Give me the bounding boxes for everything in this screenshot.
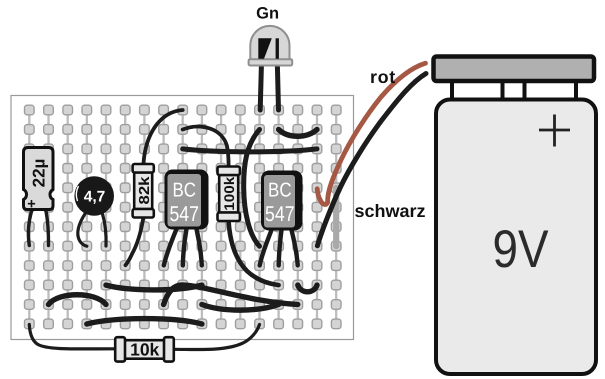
svg-text:BC: BC: [172, 180, 196, 202]
svg-text:Gn: Gn: [256, 4, 279, 22]
svg-text:82k: 82k: [137, 175, 153, 204]
svg-text:547: 547: [169, 202, 199, 226]
svg-text:22µ: 22µ: [30, 159, 49, 188]
svg-text:9V: 9V: [493, 220, 550, 279]
svg-text:10k: 10k: [130, 340, 159, 360]
svg-text:+: +: [27, 197, 35, 213]
svg-text:100k: 100k: [221, 177, 237, 211]
svg-text:4,7: 4,7: [84, 189, 106, 206]
svg-text:547: 547: [265, 202, 295, 226]
svg-text:schwarz: schwarz: [355, 201, 426, 221]
svg-text:BC: BC: [268, 180, 292, 202]
svg-text:rot: rot: [370, 67, 396, 87]
